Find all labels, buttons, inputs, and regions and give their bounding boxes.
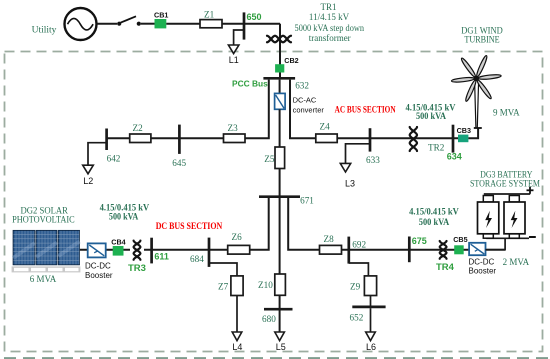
- svg-text:642: 642: [107, 153, 121, 163]
- svg-text:CB1: CB1: [154, 11, 168, 20]
- svg-text:DC-DC: DC-DC: [85, 262, 111, 271]
- svg-text:L3: L3: [345, 178, 355, 188]
- svg-text:L2: L2: [83, 176, 93, 186]
- svg-text:transformer: transformer: [309, 33, 351, 43]
- svg-text:Z3: Z3: [228, 123, 239, 133]
- svg-text:645: 645: [172, 158, 186, 168]
- svg-text:CB5: CB5: [453, 235, 467, 244]
- svg-text:TR3: TR3: [128, 263, 146, 274]
- svg-text:L5: L5: [276, 342, 286, 352]
- svg-text:Z7: Z7: [218, 282, 229, 292]
- svg-text:500 kVA: 500 kVA: [419, 217, 450, 227]
- svg-text:9 MVA: 9 MVA: [493, 107, 520, 117]
- svg-text:6 MVA: 6 MVA: [30, 274, 57, 284]
- svg-text:4.15/0.415 kV: 4.15/0.415 kV: [409, 206, 459, 216]
- svg-text:634: 634: [447, 152, 462, 162]
- svg-text:Z9: Z9: [350, 282, 361, 292]
- svg-text:Z6: Z6: [232, 232, 243, 242]
- svg-text:CB3: CB3: [457, 126, 471, 135]
- svg-text:Z4: Z4: [320, 122, 331, 132]
- svg-text:500 kVA: 500 kVA: [109, 211, 139, 221]
- svg-text:AC BUS SECTION: AC BUS SECTION: [335, 104, 396, 114]
- svg-text:TR4: TR4: [436, 262, 455, 273]
- svg-text:L1: L1: [229, 55, 239, 65]
- svg-text:Z5: Z5: [264, 154, 275, 164]
- svg-text:DC-AC: DC-AC: [293, 95, 317, 104]
- svg-text:2 MVA: 2 MVA: [503, 257, 530, 267]
- svg-text:converter: converter: [293, 106, 325, 115]
- svg-text:Z2: Z2: [133, 123, 144, 133]
- svg-text:TR2: TR2: [428, 143, 445, 153]
- svg-text:652: 652: [350, 313, 364, 323]
- svg-text:TR1: TR1: [320, 2, 336, 12]
- svg-text:Booster: Booster: [85, 271, 113, 280]
- svg-text:633: 633: [366, 155, 380, 165]
- svg-text:DC BUS SECTION: DC BUS SECTION: [156, 221, 223, 231]
- svg-text:DC-DC: DC-DC: [469, 257, 495, 266]
- svg-text:Booster: Booster: [469, 267, 497, 276]
- svg-text:Z8: Z8: [324, 234, 335, 244]
- svg-text:611: 611: [154, 251, 169, 261]
- svg-text:PHOTOVOLTAIC: PHOTOVOLTAIC: [12, 215, 75, 225]
- svg-text:500 kVA: 500 kVA: [416, 111, 446, 121]
- svg-text:684: 684: [190, 254, 204, 264]
- svg-text:Utility: Utility: [32, 25, 57, 35]
- svg-text:671: 671: [300, 196, 314, 206]
- svg-text:5000 kVA step down: 5000 kVA step down: [295, 23, 365, 33]
- svg-text:TURBINE: TURBINE: [464, 34, 500, 44]
- svg-text:L4: L4: [232, 342, 242, 352]
- svg-text:CB4: CB4: [111, 238, 125, 247]
- svg-text:650: 650: [247, 12, 262, 22]
- svg-text:632: 632: [295, 80, 309, 90]
- svg-text:STORAGE SYSTEM: STORAGE SYSTEM: [470, 179, 540, 189]
- svg-text:11/4.15 kV: 11/4.15 kV: [309, 12, 350, 22]
- svg-text:Z1: Z1: [204, 10, 215, 20]
- svg-text:CB2: CB2: [284, 56, 298, 65]
- svg-text:692: 692: [352, 240, 366, 250]
- svg-text:L6: L6: [366, 342, 376, 352]
- svg-text:PCC Bus: PCC Bus: [232, 79, 268, 89]
- svg-text:680: 680: [262, 314, 276, 324]
- svg-text:675: 675: [412, 236, 427, 246]
- svg-text:Z10: Z10: [258, 280, 273, 290]
